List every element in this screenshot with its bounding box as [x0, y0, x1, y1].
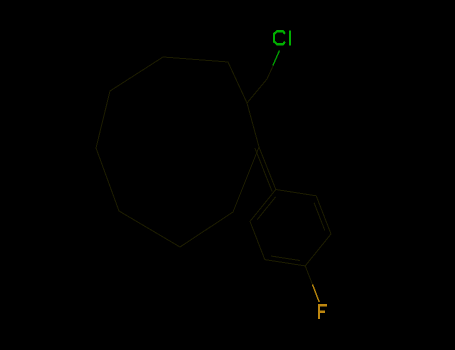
- ring (left macrocycle): [96, 57, 259, 247]
- atom label F: [318, 304, 327, 319]
- wire bond to Cl lower dark half: [267, 66, 273, 79]
- atom label Cl: [274, 31, 290, 46]
- bond to Cl (green part): [273, 51, 280, 66]
- wire bond F upper dark half: [305, 266, 312, 284]
- bond to F (orange part): [313, 285, 320, 303]
- benzene inner aromatic lines: [314, 203, 324, 230]
- wire CH2 to ring: [247, 79, 267, 103]
- benzene ring (4-fluorophenyl): [250, 190, 331, 266]
- wire double bond C=C: [259, 147, 276, 190]
